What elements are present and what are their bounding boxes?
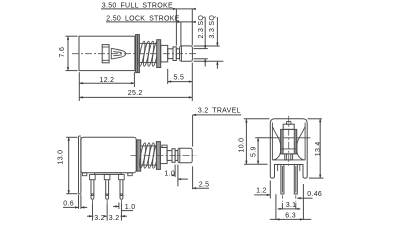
svg-text:5.9: 5.9 [251, 146, 258, 157]
plunger section2 [173, 47, 176, 61]
svg-text:3.2 TRAVEL: 3.2 TRAVEL [198, 107, 241, 114]
lock cam slot [102, 45, 109, 63]
svg-text:3.3 SQ: 3.3 SQ [209, 15, 216, 39]
plunger tip [178, 148, 192, 163]
centerline axis [72, 53, 197, 55]
plunger section1 [160, 147, 167, 163]
svg-text:3.2: 3.2 [94, 215, 105, 222]
spring coils S2 [138, 142, 147, 168]
svg-text:0.6: 0.6 [63, 201, 74, 208]
svg-text:1.2: 1.2 [256, 188, 267, 195]
svg-text:25.2: 25.2 [128, 90, 143, 97]
housing front outline [270, 119, 307, 178]
FRONTVIEW [239, 116, 324, 221]
centerline axis2 [131, 155, 197, 157]
svg-text:13.0: 13.0 [58, 150, 65, 165]
base platform [95, 173, 122, 175]
front pin right [294, 165, 297, 195]
spring washer W2 [156, 142, 160, 170]
button cap [283, 124, 294, 129]
plunger joint1 [167, 151, 172, 161]
plunger joint1 [168, 49, 173, 59]
svg-text:3.2: 3.2 [109, 215, 120, 222]
terminal pin P1 [91, 180, 94, 200]
switch body S2 right-angle [81, 137, 136, 173]
housing inner walls [271, 123, 273, 160]
BOTTOMVIEW [58, 107, 242, 221]
button top nub [287, 122, 291, 125]
mount flange F2 [137, 140, 141, 171]
plunger tip 3.3sq [180, 46, 193, 61]
base stub left [82, 173, 86, 176]
vertical centerline [288, 116, 290, 167]
svg-text:6.3: 6.3 [285, 213, 296, 220]
plunger section1 [161, 45, 168, 62]
front pin left [281, 165, 284, 195]
svg-text:10.0: 10.0 [239, 138, 246, 153]
plunger joint2 [176, 49, 179, 59]
svg-text:2.3 SQ: 2.3 SQ [198, 15, 205, 39]
base detail lines [277, 165, 279, 172]
terminal pin P3 [120, 180, 123, 200]
svg-text:5.5: 5.5 [174, 74, 185, 81]
spring washer [157, 40, 161, 68]
svg-text:13.4: 13.4 [315, 141, 322, 156]
svg-text:0.46: 0.46 [307, 191, 322, 198]
terminal pin P2 [106, 180, 109, 200]
base stub right [128, 173, 132, 176]
button stem [285, 154, 293, 160]
plunger section2 [172, 149, 175, 163]
mount flange [136, 35, 140, 73]
button body [281, 129, 297, 154]
TOPVIEW [59, 3, 224, 101]
switch body S1 [79, 36, 135, 70]
pin shoulders [90, 175, 96, 180]
mounting bracket [78, 137, 80, 193]
svg-text:1.0: 1.0 [164, 170, 175, 177]
svg-text:3.1: 3.1 [286, 202, 297, 209]
spring coils [138, 41, 147, 67]
svg-text:7.6: 7.6 [59, 47, 66, 58]
svg-text:2.5: 2.5 [199, 182, 210, 189]
plunger joint2 [175, 151, 178, 161]
svg-text:1.0: 1.0 [125, 204, 136, 211]
cam follower pointer [111, 48, 126, 59]
svg-text:2.50 LOCK STROKE: 2.50 LOCK STROKE [106, 15, 179, 22]
pin centerlines [91, 200, 93, 204]
